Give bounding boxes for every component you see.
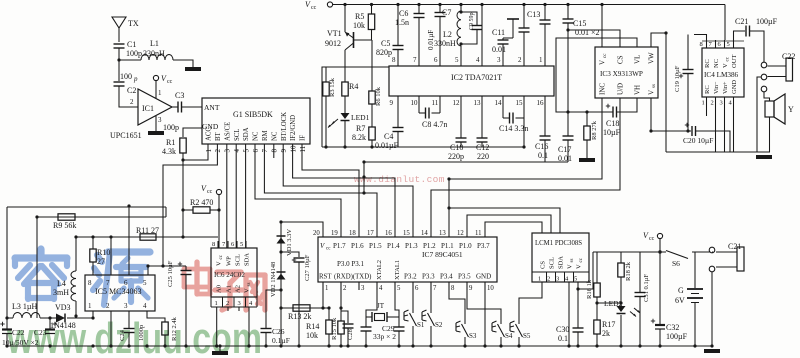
wire IC3 CS net: [568, 30, 620, 47]
capacitor C32 plates: [655, 324, 665, 326]
svg-text:SCL: SCL: [234, 129, 241, 141]
wire C13 top: [523, 5, 525, 29]
wire VD1 top net: [281, 222, 323, 229]
resistor R8 body: [584, 126, 590, 140]
svg-text:7: 7: [222, 241, 226, 248]
wire C23 top: [49, 318, 51, 329]
wire C6 to pin7: [418, 18, 420, 53]
ground after L1: [185, 67, 201, 71]
svg-text:L4: L4: [57, 279, 66, 288]
svg-text:XTAL2: XTAL2: [376, 260, 383, 280]
wire R16 bottom: [596, 297, 598, 320]
svg-text:C24: C24: [119, 329, 126, 341]
wire LCM1 pin1 to S5: [519, 282, 542, 324]
wire C12 bottom: [481, 142, 483, 147]
svg-text:6: 6: [231, 241, 235, 248]
wire IC1 out to C3: [172, 106, 178, 108]
svg-text:NC: NC: [713, 59, 720, 68]
wire SCL nest: [467, 215, 551, 233]
svg-text:R12 2.4k: R12 2.4k: [171, 316, 178, 341]
resistor R3: [323, 82, 329, 96]
IC IC5 MC34063: [85, 275, 155, 311]
svg-text:0.1: 0.1: [538, 151, 548, 160]
wire VT1 emitter rail: [344, 5, 346, 33]
wire C10 bottom: [460, 142, 462, 147]
wire C1 to node: [118, 48, 120, 60]
capacitor C23 plates: [45, 328, 55, 330]
svg-text:19: 19: [331, 230, 338, 237]
wire IC5 pin2 down: [110, 311, 112, 346]
wire C5 to pin8: [397, 50, 399, 53]
wire G1 pin3 to IC6 WP: [227, 153, 228, 248]
IC7 top pin 18: [358, 229, 360, 237]
wire C4 top: [397, 108, 399, 127]
wire C9 bottom: [461, 30, 477, 45]
wire pin5 to C25: [148, 265, 186, 267]
svg-text:V: V: [567, 264, 574, 269]
IC7 top pin 15: [412, 229, 414, 237]
svg-text:IC2 TDA7021T: IC2 TDA7021T: [451, 73, 502, 82]
wire CS nest: [485, 222, 542, 233]
wire node to C2: [118, 60, 120, 81]
wire C21 to jack: [750, 31, 765, 62]
wire VW long vertical: [665, 33, 667, 152]
wire C16 top: [544, 108, 546, 136]
IC7 top pin 13: [448, 229, 450, 237]
wire LCM1 Vcc net: [578, 252, 593, 289]
ground bottom left: [212, 351, 228, 355]
wire C31 bottom: [639, 297, 641, 347]
wire R5 to base: [371, 30, 373, 41]
resistor R17 body: [594, 320, 600, 334]
capacitor C13 plates: [519, 27, 530, 29]
wire IC3 INC net: [449, 98, 602, 179]
IC7 bottom pin 3: [358, 282, 360, 290]
svg-text:RST: RST: [319, 274, 332, 281]
inductor L2: [457, 11, 461, 46]
svg-text:3mH: 3mH: [53, 288, 69, 297]
wire C15a to pin1: [544, 24, 546, 52]
wire IC7 pin3: [358, 282, 360, 290]
wire S2 bottom: [430, 326, 432, 346]
svg-text:cc: cc: [167, 79, 173, 85]
svg-text:P1.1: P1.1: [441, 242, 454, 250]
wire R8 bottom: [586, 140, 588, 158]
svg-text:9: 9: [390, 99, 394, 107]
wire R14 bottom: [328, 334, 330, 346]
svg-text:S3: S3: [469, 332, 477, 340]
wire IC1 pin3: [155, 116, 157, 131]
svg-text:C2: C2: [127, 86, 136, 95]
svg-text:16: 16: [385, 230, 392, 237]
svg-text:C5: C5: [381, 39, 390, 48]
IC7 bottom pin 7: [430, 282, 432, 290]
jack C21 bottom: [709, 247, 715, 253]
terminal Vcc IC1: [153, 75, 158, 80]
svg-text:R4: R4: [349, 82, 358, 91]
resistor R4: [342, 82, 348, 96]
svg-text:1.5n: 1.5n: [395, 18, 409, 27]
svg-text:V: V: [244, 288, 251, 293]
wire rail right part: [692, 251, 713, 253]
svg-text:R17: R17: [602, 320, 615, 329]
crystal JT: [366, 316, 372, 318]
svg-text:1: 1: [215, 300, 218, 307]
wire C19 bottom: [687, 74, 689, 132]
resistor R11: [140, 234, 156, 240]
wire C17 top: [567, 112, 569, 136]
watermark pink char zi: [217, 269, 241, 274]
capacitor C12 plates: [477, 137, 488, 139]
svg-text:C32: C32: [666, 323, 679, 332]
antenna TX: [118, 27, 120, 42]
capacitor C28 plates: [343, 323, 354, 325]
svg-text:C17: C17: [558, 145, 571, 154]
capacitor C18 plates: [612, 107, 614, 118]
svg-text:C16: C16: [535, 142, 548, 151]
wire G1 pin10 to IC7 p16: [293, 153, 395, 229]
capacitor C22 plates: [2, 328, 12, 330]
wire C17R8 net: [568, 111, 613, 113]
wire L1 to ground: [173, 60, 193, 67]
svg-text:8.2k: 8.2k: [352, 133, 366, 142]
svg-text:U/D: U/D: [617, 83, 625, 95]
wire IC3 UD net to IC7 p14: [431, 98, 620, 229]
wire IC5 pin7 up: [110, 237, 112, 275]
IC4 top pin 8: [706, 40, 708, 48]
resistor R12 body: [162, 322, 168, 335]
svg-text:4: 4: [379, 285, 383, 292]
svg-text:2: 2: [226, 300, 229, 307]
svg-text:1000p: 1000p: [138, 325, 145, 341]
svg-text:3: 3: [238, 300, 241, 307]
svg-text:AS/CE: AS/CE: [224, 122, 231, 141]
svg-text:R3 15k: R3 15k: [329, 77, 336, 97]
svg-text:RC: RC: [704, 59, 711, 68]
capacitor C10 plates: [456, 137, 467, 139]
op-amp IC1 UPC1651: [138, 89, 172, 125]
wire OUT to C21: [734, 31, 746, 40]
capacitor C25 plates: [181, 270, 192, 272]
capacitor C26 plates: [261, 328, 272, 330]
IC4 top pin 7: [715, 40, 717, 48]
wire left rail top: [7, 206, 166, 208]
wire IC3 VL net: [556, 38, 637, 112]
svg-text:12: 12: [453, 99, 461, 107]
svg-text:6: 6: [718, 41, 722, 48]
svg-text:C13: C13: [527, 10, 540, 19]
svg-text:33p × 2: 33p × 2: [373, 332, 396, 341]
wire C20 right: [696, 131, 731, 152]
IC7 top pin 14: [430, 229, 432, 237]
svg-text:18: 18: [349, 230, 356, 237]
svg-text:cc: cc: [579, 257, 584, 262]
IC7 top pin 20: [322, 229, 324, 237]
junction dots: [117, 58, 120, 61]
wire R2 right: [210, 209, 219, 211]
wire VD1 vertical: [280, 222, 282, 346]
wire IC6 A3 stub: [238, 307, 240, 311]
svg-text:330nH: 330nH: [143, 49, 165, 58]
svg-text:C9 59p: C9 59p: [469, 12, 475, 30]
IC2 top pin 1: [544, 52, 546, 66]
IC2 top pin 8: [397, 52, 399, 66]
wire L2 top: [460, 5, 462, 12]
wire bottom bus: [7, 345, 713, 347]
svg-text:L3 1µH: L3 1µH: [12, 302, 37, 311]
svg-text:Vin+: Vin+: [722, 81, 729, 94]
svg-text:6: 6: [124, 279, 128, 287]
svg-text:SCL: SCL: [235, 254, 242, 266]
svg-text:SDA: SDA: [244, 253, 251, 266]
svg-text:ACC: ACC: [206, 127, 213, 141]
resistor R6: [369, 91, 375, 104]
svg-text:L2: L2: [443, 30, 452, 39]
svg-text:100µF: 100µF: [756, 17, 778, 26]
IC6 top pin 5: [245, 241, 247, 248]
svg-text:330nH: 330nH: [434, 39, 456, 48]
wire IC4 pin3: [724, 103, 726, 152]
svg-text:3: 3: [556, 276, 559, 283]
wire R1R11 join: [182, 210, 184, 237]
wire C11 to stub: [502, 38, 504, 40]
wire IC4 pin1: [706, 103, 708, 116]
wire R10 to pin8: [92, 262, 94, 275]
svg-text:1: 1: [88, 302, 92, 310]
svg-text:27: 27: [97, 257, 105, 266]
svg-text:12: 12: [457, 230, 464, 237]
capacitor C1: [114, 43, 125, 45]
IC7 bottom pin 9: [466, 282, 468, 290]
IC IC7 89C4051: [318, 237, 497, 282]
wire L3 left: [7, 317, 13, 319]
svg-text:R5: R5: [355, 12, 364, 21]
capacitor C31 plates: [635, 292, 646, 294]
resistor R14 body: [326, 320, 332, 334]
wire rail2 corner: [363, 162, 365, 193]
wire C16 bottom: [544, 140, 546, 162]
svg-text:5: 5: [727, 41, 730, 48]
wire R9 left down: [36, 217, 38, 318]
svg-text:6: 6: [434, 56, 438, 64]
svg-text:2: 2: [711, 100, 714, 107]
svg-text:4: 4: [249, 300, 253, 307]
wire IC6 A2 stub: [227, 307, 229, 311]
wire C12 top: [481, 108, 483, 138]
svg-text:cc: cc: [311, 5, 317, 11]
svg-text:BT: BT: [215, 131, 222, 141]
wire C13 to pin2: [523, 32, 525, 52]
svg-text:ss: ss: [247, 283, 252, 287]
wire pin8 to S3: [449, 282, 465, 324]
LED2 diode: [617, 306, 626, 312]
svg-text:V: V: [722, 63, 729, 68]
resistor R5: [368, 14, 374, 30]
svg-text:8: 8: [212, 241, 215, 248]
wire R2 left: [183, 209, 193, 211]
wire XTAL1 down: [395, 282, 399, 327]
wire G1 pin11 IF to IC7 p18: [302, 153, 359, 229]
diode VD2: [277, 271, 286, 273]
svg-text:15: 15: [403, 230, 410, 237]
svg-text:cc: cc: [326, 247, 331, 252]
svg-text:NC: NC: [253, 131, 260, 141]
IC IC3 X9313WP: [595, 47, 658, 98]
svg-text:SDA: SDA: [243, 127, 250, 141]
capacitor C14: [502, 108, 504, 118]
wire C25 top: [185, 266, 187, 270]
svg-text:IF: IF: [300, 135, 307, 141]
svg-text:S4: S4: [505, 332, 513, 340]
svg-text:15: 15: [516, 99, 524, 107]
wire R9 line: [37, 216, 166, 218]
svg-text:11: 11: [432, 99, 439, 107]
svg-text:10k: 10k: [306, 331, 318, 340]
svg-text:V: V: [320, 242, 325, 250]
capacitor C6 plates: [414, 13, 425, 15]
resistor R9: [58, 214, 75, 220]
wire S4 bottom: [500, 337, 502, 346]
wire rail to jack: [712, 251, 713, 253]
watermark pink char dian: [184, 262, 265, 310]
wire C22 bottom: [6, 334, 8, 347]
wire VT1 collector: [344, 50, 346, 82]
svg-text:C25 10µF: C25 10µF: [167, 260, 174, 287]
svg-text:0.01: 0.01: [558, 154, 572, 163]
wire IC4 pin8 net: [694, 35, 707, 41]
IC IC2 TDA7021T: [389, 66, 554, 96]
svg-text:R11 27: R11 27: [136, 226, 159, 235]
wire C3 to ANT: [182, 106, 202, 108]
capacitor C24 plates: [124, 328, 135, 330]
wire pin6 to S1: [412, 282, 414, 313]
wire C10 top: [460, 108, 462, 138]
svg-text:0.1µF: 0.1µF: [272, 336, 290, 345]
transistor VT1 9012: [353, 32, 355, 48]
wire IC6 Vss down: [248, 307, 250, 346]
wire Vcc rail: [333, 4, 725, 6]
svg-text:VW: VW: [648, 52, 656, 64]
svg-text:1: 1: [325, 285, 328, 292]
svg-text:4: 4: [476, 56, 480, 64]
svg-text:IF2/GND: IF2/GND: [290, 115, 297, 141]
svg-text:cc: cc: [603, 53, 608, 58]
wire IC3 Vcc pin: [601, 5, 603, 48]
switch S5: [516, 324, 523, 337]
svg-text:S1: S1: [417, 321, 425, 329]
wire C4 bottom: [397, 132, 399, 148]
svg-text:L1: L1: [150, 39, 159, 48]
svg-text:P1.6: P1.6: [351, 242, 364, 250]
svg-text:C6: C6: [399, 9, 408, 18]
svg-text:3: 3: [158, 116, 162, 124]
wire R4 to LED1: [344, 96, 346, 113]
IC4 top pin 5: [733, 40, 735, 48]
svg-text:cc: cc: [649, 236, 655, 242]
svg-text:R15 10k: R15 10k: [331, 317, 338, 340]
svg-text:2: 2: [547, 276, 550, 283]
svg-text:10µF: 10µF: [603, 128, 621, 137]
wire C7 top: [439, 5, 441, 13]
IC2 bottom pin 15: [523, 96, 525, 108]
wire S3 bottom: [464, 337, 466, 346]
watermark blue char rong: [15, 249, 150, 305]
wire R14 top: [328, 308, 330, 320]
wire G1 pin9 to IC7 p15: [283, 153, 413, 229]
svg-text:R16 1k: R16 1k: [586, 279, 593, 299]
svg-text:C26: C26: [272, 327, 285, 336]
svg-text:cc: cc: [726, 56, 731, 61]
watermark pink char wang: [243, 275, 248, 310]
wire Vcc right down: [659, 239, 661, 252]
svg-text:6V: 6V: [675, 296, 685, 305]
wire IC7 p13 vertical: [448, 179, 450, 229]
svg-text:14: 14: [421, 230, 428, 237]
svg-text:100: 100: [120, 72, 132, 81]
test point bar: [507, 18, 519, 20]
svg-text:P3.0 P3.1: P3.0 P3.1: [337, 260, 365, 268]
resistor R16 body: [594, 283, 600, 297]
svg-text:IC6 24C02: IC6 24C02: [214, 271, 245, 279]
IC7 bottom pin 4: [376, 282, 378, 290]
capacitor C8 plates: [425, 108, 427, 119]
wire R11 line: [76, 236, 218, 238]
wire S1 bottom: [412, 326, 414, 346]
svg-text:13: 13: [439, 230, 446, 237]
svg-text:7: 7: [261, 149, 269, 153]
wire C27 link: [281, 252, 299, 257]
svg-text:3: 3: [497, 56, 501, 64]
svg-text:R18 2k: R18 2k: [625, 261, 632, 281]
inductor L4: [71, 271, 76, 301]
svg-text:C22: C22: [12, 328, 25, 337]
svg-text:S5: S5: [523, 332, 531, 340]
switch S2: [428, 313, 435, 326]
svg-text:R8 27k: R8 27k: [591, 120, 598, 140]
svg-text:10: 10: [289, 145, 297, 153]
svg-text:G: G: [678, 286, 684, 295]
wire C27 bottom: [298, 262, 300, 346]
svg-text:VD3: VD3: [55, 303, 71, 312]
wire R18 top: [620, 252, 622, 263]
svg-text:V: V: [576, 264, 583, 269]
wire C28 top: [341, 311, 348, 323]
svg-text:4.3k: 4.3k: [162, 147, 176, 156]
wire C30 top: [577, 289, 579, 328]
wire R12 bottom: [164, 335, 166, 346]
diode VD3: [56, 314, 65, 323]
svg-text:5: 5: [455, 56, 459, 64]
svg-text:3: 3: [224, 149, 232, 153]
wire C2 to IC1 pin2: [119, 86, 138, 107]
svg-text:C12: C12: [476, 143, 489, 152]
capacitor C15a plates: [540, 19, 551, 21]
capacitor C8: [418, 108, 420, 113]
svg-text:cc: cc: [207, 189, 213, 195]
svg-text:SCL: SCL: [549, 257, 556, 269]
svg-text:(RXD)(TXD): (RXD)(TXD): [334, 274, 371, 281]
wire IC1 pin1: [155, 81, 157, 98]
svg-text:7: 7: [433, 285, 437, 292]
svg-text:2k: 2k: [602, 329, 610, 338]
wire speaker to ground: [769, 117, 771, 152]
wire battery bottom: [694, 303, 696, 347]
switch S6: [666, 251, 688, 259]
wire L4 bottom: [75, 301, 77, 318]
wire R1 down: [182, 153, 184, 209]
svg-text:R13 2k: R13 2k: [288, 312, 311, 321]
svg-text:9: 9: [280, 149, 288, 153]
